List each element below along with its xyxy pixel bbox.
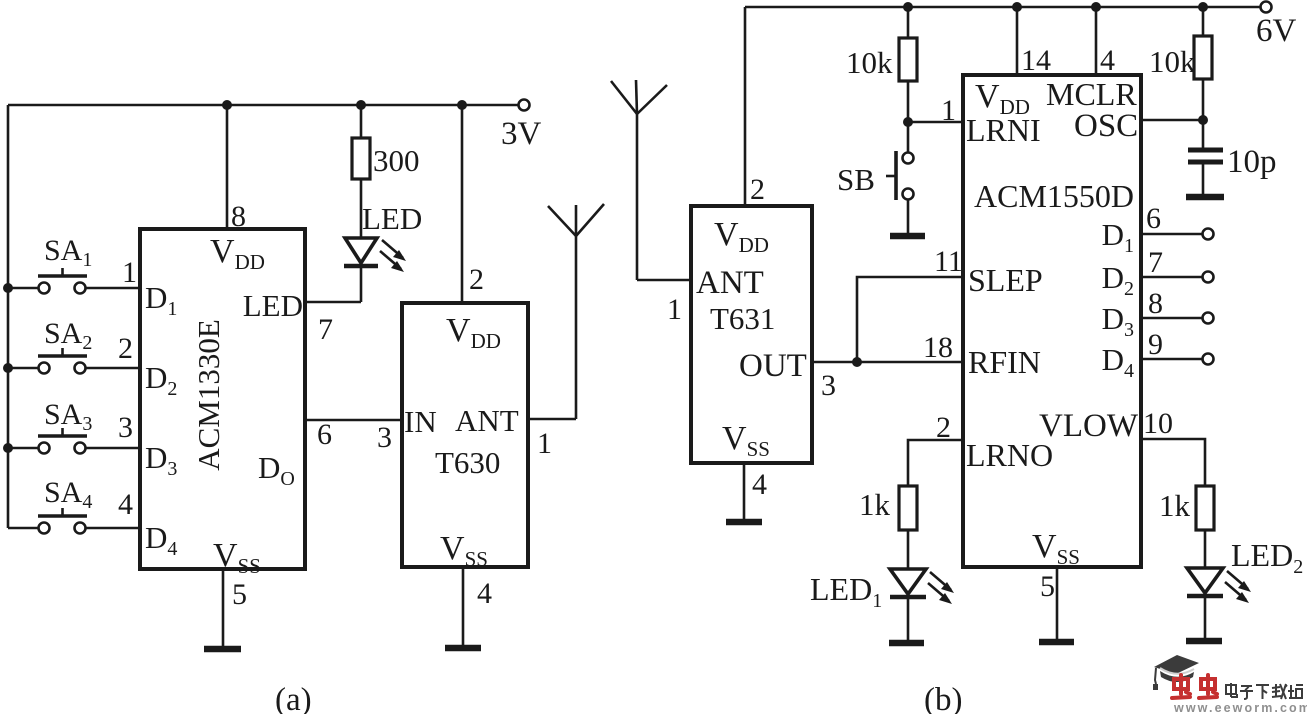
wire: rail to R10k left [907,7,910,38]
wire: T630 pin 4 VSS to ground [462,567,465,648]
svg-text:T630: T630 [435,445,500,480]
resistor R 10k right [1194,36,1212,79]
LED1 diode symbol [890,569,954,604]
capacitor C 10p [1188,120,1223,194]
wire: R1k right to LED2 [1204,530,1207,568]
svg-text:LED1: LED1 [810,571,882,612]
wire: T631 OUT to RFIN [812,361,963,364]
terminal: D1 open circle [1203,229,1214,240]
switch SA4 [8,476,140,534]
svg-text:LED2: LED2 [1231,537,1303,578]
wire: LED cathode to pin 7 [360,266,363,302]
svg-text:IN: IN [404,404,437,439]
wire: R10k right to OSC node [1202,79,1205,120]
svg-text:10k: 10k [846,45,893,80]
svg-text:MCLR: MCLR [1046,76,1137,112]
wire: pin 7 LED output [305,301,361,304]
wire: LRNO pin 2 to R1k left [908,440,963,486]
node: bus-SA2 junction [3,363,13,373]
ground of SB [890,233,925,240]
svg-text:3: 3 [118,411,133,444]
node: LRNI junction [903,117,913,127]
wire: LED2 to ground [1204,596,1207,641]
svg-text:LED: LED [243,288,303,323]
svg-text:6: 6 [317,418,332,451]
switch SA1 [8,234,140,294]
svg-text:RFIN: RFIN [968,344,1041,380]
svg-text:6: 6 [1146,202,1161,235]
terminal: 6V open circle [1261,2,1272,13]
wire: LED1 to ground [907,597,910,643]
terminal: D2 open circle [1203,272,1214,283]
switch SB [837,122,914,236]
svg-text:7: 7 [318,313,333,346]
svg-text:4: 4 [118,488,133,521]
wire: pin 8 VDD [226,105,229,229]
wire: pin 6 DO to T630 IN [305,419,402,422]
resistor 300 [352,138,370,179]
resistor R 1k right [1196,486,1214,530]
node: OUT-SLEP junction [852,357,862,367]
wire: rail to pin 14 [1016,7,1019,75]
switch SA2 [8,317,140,374]
svg-text:5: 5 [232,578,247,611]
wire: rail to T630 VDD pin 2 [461,105,464,303]
svg-text:4: 4 [1100,44,1115,77]
IC U3 ACM1550D body [963,75,1141,567]
svg-text:OSC: OSC [1074,108,1138,144]
ground of U1 [204,646,241,653]
wire: 3V supply rail [8,104,523,107]
IC U4 T631 body [691,206,812,463]
svg-text:6V: 6V [1256,13,1297,49]
ground of U3 [1039,639,1074,646]
svg-text:ANT: ANT [696,265,764,301]
LED2 diode symbol [1187,568,1251,603]
svg-text:1: 1 [537,427,552,460]
wire: rail down to T631 VDD [744,7,747,206]
svg-text:1: 1 [122,256,137,289]
wire: VLOW pin 10 to R1k right [1141,439,1205,486]
svg-text:1k: 1k [1159,488,1191,523]
wire: rail to R10k right [1202,7,1205,36]
wire: antenna to T631 ANT [637,279,691,282]
svg-text:(b): (b) [924,682,962,714]
ground of T630 [445,645,481,652]
switch SA3 [8,398,140,454]
svg-text:ACM1330E: ACM1330E [191,319,226,471]
terminal: 3V open circle [519,100,530,111]
wire: T630 ANT to antenna [528,418,576,421]
IC U1 ACM1330E body [140,229,305,569]
node: rail-pin14 junction [1012,2,1022,12]
wire: D1 pin 6 [1141,233,1202,236]
svg-text:5: 5 [1040,570,1055,603]
svg-text:3V: 3V [501,116,542,152]
svg-text:VLOW: VLOW [1039,408,1139,444]
node: bus-SA1 junction [3,283,13,293]
wire: left bus from rail to SA4 [7,105,10,528]
svg-text:1: 1 [941,94,956,127]
svg-text:2: 2 [936,411,951,444]
antenna of circuit b [611,80,667,280]
node: rail-R300 junction [356,100,366,110]
wire: rail to pin 4 [1095,7,1098,75]
ground of T631 [726,519,762,526]
svg-text:2: 2 [118,332,133,365]
wire: R300 to LED anode [360,179,363,239]
wire: D2 pin 7 [1141,276,1202,279]
wire: OSC pin to capacitor node [1141,119,1203,122]
svg-text:11: 11 [934,245,963,278]
svg-text:7: 7 [1148,246,1163,279]
svg-text:T631: T631 [710,301,775,336]
node: rail-R10k left junction [903,2,913,12]
svg-text:1: 1 [667,293,682,326]
svg-text:8: 8 [1148,287,1163,320]
svg-text:1k: 1k [859,487,891,522]
wire: D3 pin 8 [1141,317,1202,320]
logo: dianzi xiazaizhan characters [1226,683,1303,699]
svg-text:10: 10 [1143,407,1173,440]
svg-text:2: 2 [469,263,484,296]
svg-text:OUT: OUT [739,348,807,384]
svg-text:300: 300 [373,143,420,178]
ground of C 10p [1186,194,1224,201]
resistor R 1k left [899,486,917,530]
wire: U3 pin 5 VSS to ground [1056,567,1059,642]
node: rail-T630 VDD junction [457,100,467,110]
svg-text:10k: 10k [1149,44,1196,79]
terminal: D4 open circle [1203,354,1214,365]
svg-text:9: 9 [1148,328,1163,361]
ground of LED2 [1186,638,1222,645]
svg-text:3: 3 [377,421,392,454]
wire: R10k left to LRNI node [907,81,910,122]
antenna of circuit a [548,204,604,419]
svg-text:SLEP: SLEP [968,262,1043,298]
logo: chongchong red characters [1172,675,1217,698]
node: rail-pin4 junction [1091,2,1101,12]
LED diode symbol [344,238,406,272]
wire: pin 5 VSS to ground [222,569,225,649]
svg-text:www.eeworm.com: www.eeworm.com [1173,701,1307,714]
resistor R 10k left [899,38,917,81]
svg-text:4: 4 [752,468,767,501]
wire: node to LRNI pin 1 [908,121,963,124]
node: bus-SA3 junction [3,443,13,453]
svg-text:18: 18 [923,331,953,364]
logo: graduation cap [1153,655,1199,690]
node: OSC junction [1198,115,1208,125]
IC U2 T630 body [402,303,528,567]
svg-text:LED: LED [362,201,422,236]
wire: 6V supply rail [745,6,1266,9]
node: rail-pin8 junction [222,100,232,110]
svg-text:14: 14 [1021,44,1051,77]
svg-text:(a): (a) [275,682,312,714]
ground of LED1 [889,640,924,647]
svg-text:8: 8 [231,200,246,233]
wire: D4 pin 9 [1141,358,1202,361]
svg-text:LRNI: LRNI [966,112,1041,148]
wire: rail to R300 [360,105,363,138]
svg-text:4: 4 [477,577,492,610]
wire: junction up to SLEP pin 11 [857,277,963,362]
wire: T631 pin 4 VSS to ground [743,463,746,522]
node: rail-R10k right junction [1198,2,1208,12]
svg-text:10p: 10p [1227,144,1277,180]
svg-text:ANT: ANT [455,403,519,438]
svg-text:3: 3 [821,369,836,402]
svg-text:2: 2 [750,173,765,206]
svg-text:SB: SB [837,162,875,197]
svg-text:ACM1550D: ACM1550D [974,178,1134,214]
wire: R1k left to LED1 [907,530,910,569]
terminal: D3 open circle [1203,313,1214,324]
